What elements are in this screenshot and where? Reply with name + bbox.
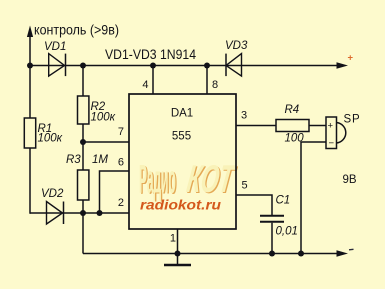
IC U1 DA1 555 timer [129, 94, 236, 229]
junction C1 bottom [269, 251, 275, 257]
watermark Радио КОТ [139, 157, 239, 203]
svg-text:контроль (>9в): контроль (>9в) [34, 22, 119, 38]
diode VD1 [44, 41, 66, 76]
junction node 7 [80, 139, 86, 145]
svg-text:+: + [328, 121, 334, 132]
wire pin 8 [206, 66, 208, 95]
junction top-left [27, 63, 33, 69]
svg-text:3: 3 [241, 110, 247, 122]
svg-text:VD2: VD2 [41, 188, 64, 200]
svg-text:4: 4 [142, 79, 148, 91]
resistor R1 [24, 118, 62, 148]
svg-text:2: 2 [118, 197, 124, 209]
wire R4 to speaker [309, 125, 326, 127]
node + supply arrow [337, 53, 354, 69]
junction speaker bottom [298, 251, 304, 257]
svg-text:C1: C1 [276, 195, 291, 207]
svg-text:VD3: VD3 [225, 40, 248, 52]
resistor R4 [276, 104, 309, 145]
junction R3 bottom [80, 210, 86, 216]
svg-text:0,01: 0,01 [276, 226, 298, 238]
node контроль (>9в) [27, 22, 119, 38]
speaker SP [326, 114, 360, 150]
svg-text:+: + [348, 53, 354, 64]
svg-text:−: − [329, 138, 335, 149]
wire R1 bottom to VD2 row [29, 148, 31, 214]
svg-text:100к: 100к [91, 112, 116, 124]
capacitor C1 [260, 195, 298, 238]
wire top rail [30, 65, 340, 67]
ground [164, 254, 191, 266]
svg-text:6: 6 [118, 157, 124, 169]
resistor R2 [78, 96, 116, 124]
svg-text:9В: 9В [343, 174, 357, 186]
diode VD3 [225, 40, 248, 76]
svg-text:1M: 1M [92, 154, 108, 166]
svg-text:SP: SP [344, 114, 361, 126]
wire R2 top [82, 66, 84, 97]
wire VD2 row to pin 2 [30, 212, 129, 214]
svg-text:5: 5 [242, 180, 248, 192]
junction pin8 top [204, 63, 210, 69]
wire bottom rail [83, 253, 340, 255]
wire pin 5 to C1 [236, 195, 272, 215]
svg-text:8: 8 [212, 79, 218, 91]
svg-text:DA1: DA1 [171, 108, 193, 120]
wire left rail to R1 [29, 66, 31, 119]
wire R2 bottom to node 7 [82, 124, 84, 170]
wire bottom drop from node 2 [82, 213, 84, 254]
svg-text:КОТ: КОТ [184, 157, 238, 200]
svg-text:100к: 100к [38, 133, 63, 145]
wire pin 7 [83, 141, 129, 143]
svg-text:R3: R3 [66, 154, 81, 166]
wire pin 1 [177, 229, 179, 254]
svg-text:VD1: VD1 [44, 41, 66, 53]
wire left rail top [29, 36, 31, 66]
svg-text:555: 555 [172, 131, 191, 143]
junction pin6 bottom [97, 210, 103, 216]
junction pin4 top [150, 63, 156, 69]
junction R2 top [80, 63, 86, 69]
node - supply arrow [337, 249, 354, 256]
wire pin 6 [100, 171, 130, 213]
junction ground [175, 251, 181, 257]
wire C1 bottom [271, 223, 273, 254]
wire pin 4 [152, 66, 154, 95]
svg-text:radiokot.ru: radiokot.ru [140, 198, 222, 213]
wire pin 3 to R4 [236, 125, 276, 127]
svg-text:7: 7 [118, 126, 124, 138]
diode VD2 [41, 188, 64, 224]
svg-text:1: 1 [170, 233, 176, 245]
wire speaker minus down [301, 142, 326, 254]
resistor R3 [66, 154, 108, 200]
wire R3 bottom [82, 200, 84, 213]
svg-text:R4: R4 [285, 104, 300, 116]
svg-text:VD1-VD3 1N914: VD1-VD3 1N914 [105, 46, 196, 62]
svg-text:Радио: Радио [139, 159, 176, 202]
